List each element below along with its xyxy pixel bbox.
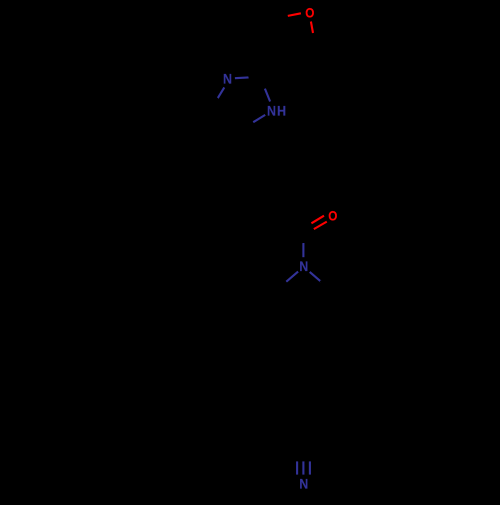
svg-text:N: N (223, 71, 232, 87)
chain azetidine C3'-CH2-CH2-CH2-C (black bonds) (302, 308, 304, 447)
svg-text:O: O (328, 207, 337, 223)
bond N-C2' azetidine left, blue half (286, 272, 298, 282)
svg-text:N: N (267, 103, 276, 119)
nitrile triple bond line 2 (main), blue half (302, 461, 304, 474)
svg-text:N: N (299, 476, 308, 492)
bond C2-N1, blue half (265, 89, 270, 102)
chain C5-CH2-CH2-C(=O) (black bonds) (242, 130, 300, 231)
bond N3=C2, blue half (235, 76, 249, 79)
imidazoline carbon skeleton (black bond halves) (210, 74, 264, 130)
bond O-C oxetane left, red half (288, 13, 301, 16)
azetidine carbon skeleton (black) (274, 281, 331, 308)
nitrile triple bond line 3, blue half (309, 461, 311, 474)
nitrile triple bond line 1, blue half (296, 461, 298, 474)
bond N1-C5, blue half (253, 115, 265, 122)
bond N3-C4, blue half (218, 87, 225, 98)
amide bond C(=O)-N, blue half (302, 243, 304, 257)
bond C=O line 2, red half (314, 222, 327, 230)
svg-text:O: O (305, 5, 314, 21)
oxetane ring carbon skeleton (black C-C bond halves) (259, 16, 317, 74)
amide bond C(=O)-N, black half (300, 230, 303, 243)
svg-text:N: N (299, 259, 308, 275)
bond C=O line 1, red half (311, 216, 324, 224)
bond N-C4' azetidine right, blue half (310, 272, 322, 282)
svg-text:H: H (277, 103, 286, 119)
nitrile C#N triple bond black halves (297, 447, 310, 461)
bond C=O black halves (300, 223, 313, 236)
bond O-C oxetane right, red half (311, 22, 313, 34)
